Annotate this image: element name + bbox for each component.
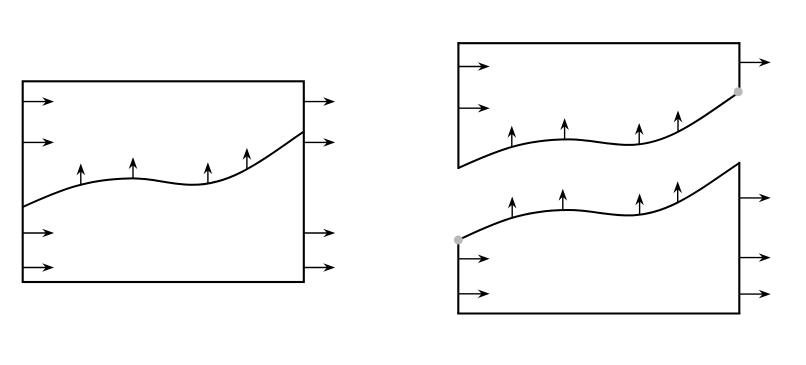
top piece R1: lower boundary curve C — [458, 92, 739, 168]
bottom piece upward flux arrow U4 on curve — [673, 181, 682, 202]
top piece R1: top edge — [458, 42, 739, 44]
bottom piece R2: right edge — [738, 163, 740, 314]
left-figure upward flux arrow U4 on curve C — [243, 148, 252, 169]
top piece upward flux arrow U3 on curve — [635, 123, 644, 144]
left-figure inflow arrow L2 on left edge — [23, 138, 54, 147]
bottom piece outflow arrow R3 — [739, 290, 770, 299]
bottom piece inflow arrow L2 — [458, 290, 489, 299]
bottom piece outflow arrow R1 — [739, 194, 770, 203]
left-figure inflow arrow L3 on left edge — [23, 229, 54, 238]
left-figure inflow arrow L1 on left edge — [23, 97, 54, 106]
bottom piece R2: upper boundary curve C — [458, 163, 739, 240]
dividing curve C across region R (left figure) — [23, 132, 304, 207]
bottom piece outflow arrow R2 — [739, 253, 770, 262]
bottom piece inflow arrow L1 — [458, 255, 489, 264]
top piece outflow arrow R1 — [739, 58, 770, 67]
region R boundary rectangle (left figure) — [23, 81, 304, 282]
top piece R1: left edge — [457, 43, 459, 168]
left-figure upward flux arrow U1 on curve C — [77, 163, 86, 184]
top piece inflow arrow L2 — [458, 104, 489, 113]
top piece R1: right edge — [738, 43, 740, 92]
left-figure upward flux arrow U2 on curve C — [129, 157, 138, 178]
left-figure outflow arrow R3 on right edge — [304, 229, 335, 238]
gray endpoint dot at right end of top piece curve — [734, 87, 743, 96]
left-figure outflow arrow R4 on right edge — [304, 263, 335, 272]
top piece upward flux arrow U4 on curve — [674, 111, 683, 132]
left-figure outflow arrow R2 on right edge — [304, 138, 335, 147]
top piece upward flux arrow U1 on curve — [508, 126, 517, 147]
left-figure inflow arrow L4 on left edge — [23, 263, 54, 272]
left-figure outflow arrow R1 on right edge — [304, 97, 335, 106]
bottom piece upward flux arrow U3 on curve — [635, 193, 644, 214]
bottom piece upward flux arrow U2 on curve — [559, 189, 568, 210]
bottom piece R2: left edge — [457, 240, 459, 314]
top piece upward flux arrow U2 on curve — [560, 118, 569, 139]
bottom piece upward flux arrow U1 on curve — [508, 197, 517, 218]
bottom piece R2: bottom edge — [458, 312, 739, 314]
gray endpoint dot at left end of bottom piece curve — [454, 236, 463, 245]
left-figure upward flux arrow U3 on curve C — [204, 162, 213, 183]
top piece inflow arrow L1 — [458, 62, 489, 71]
